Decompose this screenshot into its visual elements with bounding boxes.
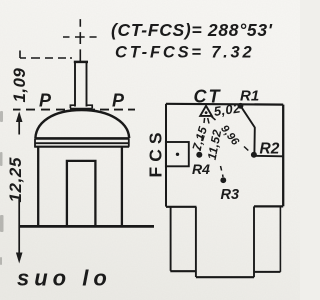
svg-text:FCS: FCS	[146, 128, 166, 178]
svg-text:P: P	[39, 91, 52, 111]
svg-text:(CT-FCS)= 288°53': (CT-FCS)= 288°53'	[111, 20, 273, 40]
svg-text:P: P	[112, 91, 125, 111]
svg-text:1,09: 1,09	[10, 68, 29, 103]
svg-text:suo lo: suo lo	[17, 266, 112, 291]
svg-text:R4: R4	[192, 161, 210, 177]
svg-text:R2: R2	[260, 141, 280, 158]
svg-text:R1: R1	[240, 88, 259, 105]
svg-text:R3: R3	[221, 187, 240, 203]
svg-text:CT-FCS= 7.32: CT-FCS= 7.32	[115, 44, 255, 62]
svg-text:12,25: 12,25	[6, 157, 25, 203]
